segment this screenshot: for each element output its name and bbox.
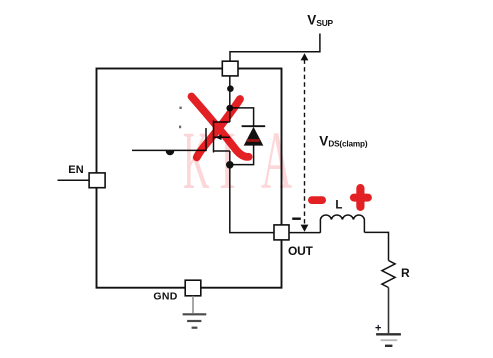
transistor Q1 body stub xyxy=(214,136,230,138)
svg-text:VDS(clamp): VDS(clamp) xyxy=(319,133,368,148)
junction dot below pin xyxy=(227,85,234,92)
svg-text:GND: GND xyxy=(153,291,177,303)
transistor Q1 channel bar xyxy=(213,121,215,153)
watermark KIA letter I xyxy=(219,113,236,206)
pin GND xyxy=(185,280,201,296)
transistor Q1 body arrow xyxy=(215,135,222,141)
ground stem (GND pin) xyxy=(192,296,194,313)
red minus annotation xyxy=(308,196,326,204)
junction dot on gate wire xyxy=(166,151,175,155)
pin EN xyxy=(89,173,105,188)
junction dot source node xyxy=(226,161,234,169)
transistor Q1 gate bar xyxy=(205,128,207,151)
diode D1 triangle xyxy=(244,127,264,146)
wire body-diode branch top xyxy=(230,108,254,127)
svg-text:VSUP: VSUP xyxy=(307,13,333,29)
inductor L xyxy=(320,215,364,233)
pin VSUP (top pad) xyxy=(222,61,238,76)
transistor Q1 drain stub xyxy=(214,121,230,123)
IC box U1 xyxy=(97,69,282,288)
red plus annotation vertical bar xyxy=(356,184,364,211)
svg-text:A: A xyxy=(261,115,292,207)
pin OUT xyxy=(274,225,289,240)
wire EN lead xyxy=(58,179,90,181)
resistor R zigzag xyxy=(382,261,395,288)
svg-text:R: R xyxy=(401,266,410,280)
transistor Q1 source stub xyxy=(214,150,230,152)
wire body-diode branch bottom xyxy=(230,145,254,164)
wire VSUP lead xyxy=(230,34,320,62)
wire gate xyxy=(132,149,206,151)
speck 1 xyxy=(179,107,181,109)
red seam of X under diode xyxy=(247,139,260,142)
diode D1 cathode bar xyxy=(242,125,266,127)
wire resistor to ground xyxy=(388,288,390,334)
wire OUT to inductor xyxy=(289,232,320,234)
red plus annotation horizontal bar xyxy=(350,194,372,202)
watermark KIA letter A xyxy=(261,115,292,207)
wire drain xyxy=(229,76,231,122)
ground bars (GND pin) xyxy=(183,314,207,327)
svg-text:+: + xyxy=(375,322,381,334)
ground bars (load) xyxy=(376,334,401,346)
wire source to OUT xyxy=(230,151,274,233)
svg-text:OUT: OUT xyxy=(288,244,314,258)
watermark KIA letter K xyxy=(183,114,209,206)
dashed arrow VDS(clamp) xyxy=(301,53,309,232)
speck 2 xyxy=(179,126,181,129)
junction dot drain node xyxy=(226,105,233,112)
svg-text:L: L xyxy=(335,199,342,211)
label minus (black) at OUT xyxy=(292,218,301,220)
wire inductor to resistor xyxy=(364,232,388,260)
svg-text:EN: EN xyxy=(68,164,84,176)
red X annotation xyxy=(192,97,249,158)
